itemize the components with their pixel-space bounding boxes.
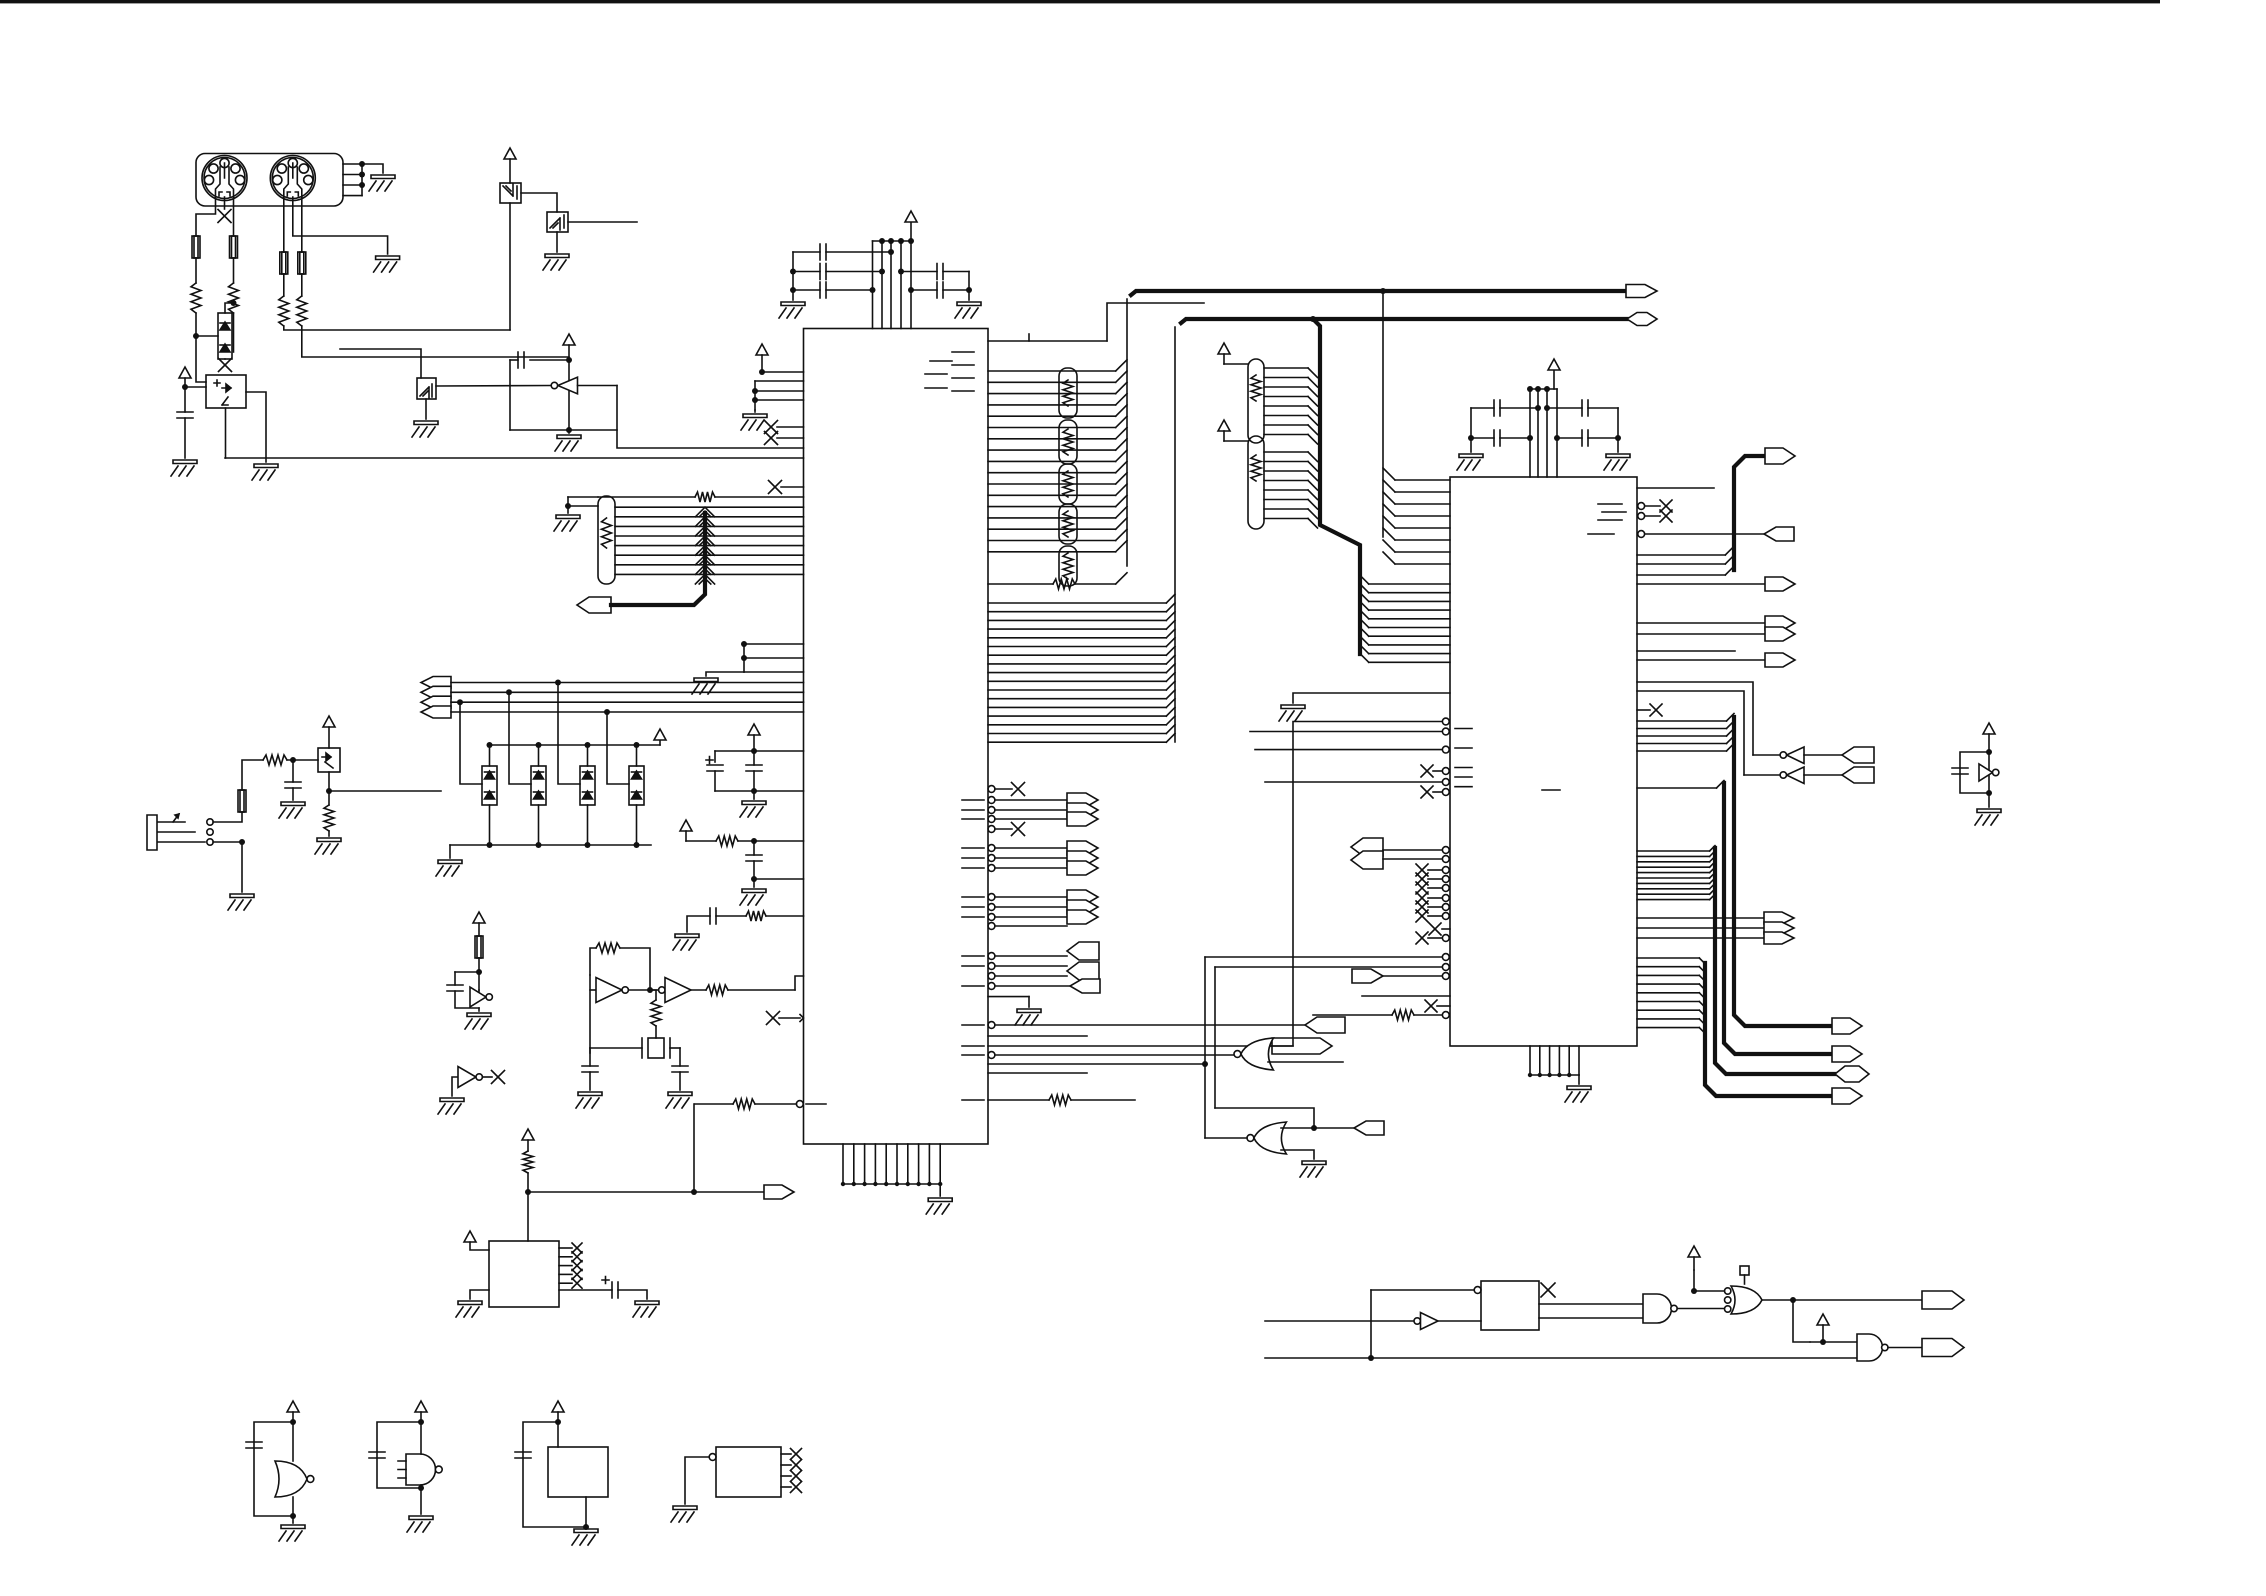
net flag (1067, 890, 1098, 904)
power flag VCC RN4 (1218, 420, 1230, 431)
wire (1617, 408, 1619, 452)
ground J1 shield (369, 175, 395, 191)
U2 right pin to thick vertical 2 (1637, 787, 1717, 789)
ground spare NAND (407, 1516, 433, 1532)
power flag VCC clock (473, 912, 485, 923)
ground U2 caps left (1457, 454, 1483, 470)
no-connect X (791, 1460, 802, 1471)
resistor R osc out (706, 985, 728, 995)
long MIDI line into U1 (225, 457, 804, 459)
resistor R cluster2 (716, 836, 738, 846)
small port symbol (1740, 1266, 1749, 1275)
wire (939, 1184, 941, 1196)
inverter U11 spare (1979, 764, 1993, 781)
capacitor C19 (292, 760, 294, 782)
caps C15 C16 osc (582, 1066, 598, 1072)
no-connect X (765, 421, 778, 434)
fuse F4 (298, 252, 306, 274)
fuse F3 (280, 252, 288, 274)
no-connect X (1012, 823, 1025, 836)
fuse FB2 (238, 790, 246, 812)
U4 right side X stubs (559, 1247, 572, 1249)
crystal X1 (648, 1038, 664, 1058)
capacitor C7 (1471, 437, 1494, 439)
U4 left pin to ground (470, 1290, 489, 1299)
U2 right X stub (1637, 709, 1650, 711)
resistor R osc series (651, 1000, 661, 1026)
RN4 pin lines merging into bus B branch (1264, 451, 1308, 453)
resistor R2 (229, 283, 239, 313)
no-connect X (769, 481, 782, 494)
power flag VCC reset (522, 1129, 534, 1140)
bus A thin branch to U2 (1380, 288, 1386, 294)
opto A output to MIDI line (225, 408, 227, 458)
RN1 common to ground (568, 505, 598, 507)
U1 input pin long flag (988, 1022, 995, 1029)
ground osc cap left (576, 1092, 602, 1108)
no-connect X (1416, 873, 1428, 885)
vertical taps down to NOR gates (1204, 957, 1206, 1138)
ground cluster3 (673, 934, 699, 950)
U1 pins commoned to ground (744, 643, 804, 645)
net flag (1765, 627, 1795, 641)
ground spare inverter (438, 1098, 464, 1114)
power flag VCC G5 (1817, 1314, 1829, 1325)
no-connect X (1660, 510, 1672, 522)
U2 right bundle to thick vertical 4 (9 lines) (1637, 957, 1699, 959)
IC U1 main controller body (804, 329, 989, 1145)
bottom logic input line 1 (1265, 1320, 1414, 1322)
ground diode arrays (436, 860, 462, 876)
ground opto A (252, 464, 278, 480)
ground spare inverter cluster (1975, 809, 2001, 825)
U2 right pin double flags (1637, 622, 1765, 624)
crystal oscillator cell (589, 975, 591, 1053)
capacitor C23 (515, 1452, 531, 1458)
net flag bus in (421, 677, 451, 689)
no-connect X (572, 1252, 582, 1262)
U4 bottom pin electrolytic (559, 1289, 612, 1291)
net flag bus in (421, 696, 451, 708)
diode pair D5 clamp (218, 313, 232, 359)
optocoupler U7 (photo-transistor) (521, 193, 557, 212)
ground U1 top-left pins (741, 414, 767, 430)
U2 interior stubs left mid (1455, 728, 1472, 730)
U1 pin line top right (988, 340, 1107, 342)
NAND gate G3 (1643, 1294, 1672, 1323)
capacitor C1 (793, 251, 820, 253)
ground spare NOR (279, 1525, 305, 1541)
U2 right pin line (1637, 650, 1735, 652)
wire U8 output (436, 385, 551, 388)
no-connect X (1012, 783, 1025, 796)
U1 pin to ground (988, 996, 1029, 998)
ground R6 (315, 838, 341, 854)
net flag (1765, 577, 1795, 591)
no-connect X (1421, 786, 1433, 798)
U1 output pin flag (988, 1045, 1272, 1047)
net flag (1067, 910, 1098, 924)
resistor R3 (279, 296, 289, 326)
U1 left X stub with pin mark (779, 1017, 800, 1019)
wire (1470, 408, 1472, 452)
net flag (1765, 653, 1795, 667)
ground U2 caps right (1604, 454, 1630, 470)
ground cluster1 (740, 801, 766, 817)
power flag VCC one-shot (563, 334, 575, 345)
U2 right pins to inverters (1637, 682, 1753, 755)
U2 left pin lines mid (1442, 728, 1449, 735)
latch U13 body (1481, 1281, 1539, 1330)
capacitor C11 (746, 765, 762, 771)
optocoupler U9 (jack) (318, 748, 340, 772)
no-connect X (1660, 500, 1672, 512)
inverter U3B osc (596, 978, 622, 1003)
wire VCC rail above U1 (873, 240, 912, 242)
capacitor C2 (793, 271, 820, 273)
U2 left X stub (1437, 1005, 1450, 1007)
U2 left pin flag out (1442, 973, 1449, 980)
U1 right pin X stub (988, 826, 995, 833)
no-connect X (791, 1482, 802, 1493)
no-connect X (1429, 923, 1441, 935)
inverter U12B mirrored (558, 377, 578, 394)
no-connect X (1650, 704, 1662, 716)
J1 shield stubs to ground (343, 163, 362, 165)
capacitor C22 (369, 1452, 385, 1458)
wire cap rail left (792, 252, 794, 300)
ground C19 (279, 802, 305, 818)
power flag VCC U2 (1548, 359, 1560, 370)
U1 left X stub (781, 486, 804, 488)
net flag (1067, 841, 1098, 855)
spare box with bubble cell (716, 1447, 781, 1497)
net flag U2 right in (1764, 527, 1794, 541)
U2 left pin bundle from bus B (10 lines) (1360, 575, 1369, 584)
U13 top-left pin (1474, 1287, 1481, 1294)
wire VCC rail above U2 (1530, 388, 1557, 390)
bus A thick trunk (1131, 291, 1626, 295)
G2 input wires (1205, 1137, 1247, 1139)
ground U8 (412, 421, 438, 437)
IC U2 sub controller body (1450, 477, 1637, 1046)
no-connect X (492, 1071, 505, 1084)
inverter U10A (1753, 754, 1786, 756)
no-connect X (1541, 1283, 1555, 1297)
no-connect X (1416, 892, 1428, 904)
power flag VCC diode arrays (654, 729, 666, 740)
ground opto A cap (171, 460, 197, 476)
U9 output long line (329, 790, 441, 792)
net flag (1764, 912, 1794, 924)
diode array vertical drops (460, 702, 482, 784)
net flag (1067, 851, 1098, 865)
U1 pin short line (988, 1072, 1087, 1074)
ground G2 input (1300, 1161, 1326, 1177)
capacitor C5 (911, 289, 937, 291)
KB bus lines with rips (8 lines) (615, 506, 804, 508)
capacitor C13 (710, 908, 716, 924)
NOR gate G1 (mirrored) (1241, 1038, 1274, 1070)
net flag out A (1922, 1291, 1964, 1309)
resistor R reset pullup (523, 1151, 533, 1173)
no-connect X (1416, 864, 1428, 876)
U1 input pins with left flags (988, 953, 995, 960)
U1 left X stubs (777, 426, 804, 428)
power flag VCC spare NOR (287, 1401, 299, 1412)
U1 left pin with resistor to reset net (796, 1101, 803, 1108)
no-connect X (791, 1471, 802, 1482)
no-connect X (1416, 882, 1428, 894)
wire U7 output stub (568, 221, 637, 223)
ground RN1 (554, 515, 580, 531)
U13 outputs to NAND (1539, 1303, 1643, 1305)
capacitor C14 (455, 971, 479, 973)
power flag VCC U1 (905, 211, 917, 222)
optocoupler U8 (MIDI in B) (340, 349, 421, 378)
resistor R osc feedback (596, 943, 620, 953)
U2 left no-connect pins (X column) (1442, 867, 1449, 874)
inverter U12 (1414, 1318, 1420, 1324)
net flag (1765, 616, 1795, 630)
net flag G2 input (1354, 1121, 1384, 1135)
power flag VCC cluster2 (680, 820, 692, 831)
spare NOR rails (292, 1422, 294, 1461)
VCC rail over diode arrays (490, 744, 661, 746)
U2 left pin with tap down to NOR (1442, 718, 1449, 725)
no-connect X (572, 1261, 582, 1271)
net flag input pair (1067, 962, 1099, 980)
spare box X stubs (781, 1453, 791, 1455)
IC U2 internal pin-group marks (1598, 503, 1622, 505)
capacitor C24 (518, 352, 524, 368)
power flag VCC RN3 (1218, 343, 1230, 354)
power flag VCC G4 (1688, 1246, 1700, 1257)
U1 pin long line (988, 1063, 1205, 1065)
resistor R5 (263, 755, 287, 765)
wire supply lines into U1 top (872, 241, 874, 329)
G4 top input from above (1694, 1270, 1725, 1291)
U2 right pins with X (1638, 503, 1645, 510)
power flag VCC spare NAND (415, 1401, 427, 1412)
ground cluster2 (740, 889, 766, 905)
bus C thick to flag (1637, 554, 1725, 556)
optocoupler U5 (MIDI in A) (206, 375, 246, 408)
net flag bus B out (1627, 313, 1657, 326)
no-connect X (572, 1243, 582, 1253)
bus B thick trunk (1181, 319, 1627, 323)
bottom logic input line 2 (1265, 1357, 1857, 1359)
wire power stem (910, 222, 912, 241)
net flag bus A out (1626, 285, 1657, 298)
ground U1 pin (1015, 1009, 1041, 1025)
power flag VCC cluster1 (748, 724, 760, 735)
connector J1 DIN socket A (202, 156, 247, 201)
net flag out (1272, 1038, 1332, 1054)
power flag VCC U4 (464, 1231, 476, 1242)
no-connect X (1416, 910, 1428, 922)
net flag bus in (421, 706, 451, 718)
net flag input pair (1067, 942, 1099, 960)
net flag in (1305, 1017, 1345, 1033)
bus A tap with resistor R (988, 583, 1053, 585)
no-connect X (791, 1449, 802, 1460)
resistor R6 (324, 805, 334, 831)
U1 output group 1 (3 lines with flags) (988, 797, 995, 804)
resistor R KB common (695, 492, 715, 502)
resistor packs RA1-RA5 on bus A taps (1059, 368, 1077, 418)
ground J2 (228, 894, 254, 910)
U1 output stub (988, 923, 995, 930)
inverter U3A (470, 987, 486, 1007)
U2 left pin stub (1362, 995, 1450, 997)
ground U1 bottom (926, 1198, 952, 1214)
U2 right pin line (1637, 487, 1714, 489)
net flag data A (1832, 1018, 1862, 1034)
connector J1 DIN socket B (270, 156, 315, 201)
net flag bus C (1765, 448, 1795, 464)
OR gate G4 (3-input with bubbles) (1731, 1286, 1762, 1314)
U1 input pin flag (988, 983, 995, 990)
NOR gate G2 (mirrored) (1254, 1122, 1287, 1154)
ground U2 pin (1279, 705, 1305, 721)
bus B taps from U1 right side (17 lines) (988, 602, 1166, 604)
J1-B pin wires down (283, 197, 285, 252)
power flag VCC U6 (504, 148, 516, 159)
ground U2 bottom (1565, 1086, 1591, 1102)
resistor R1 (191, 283, 201, 313)
ground clock (465, 1013, 491, 1029)
no-connect X (572, 1269, 582, 1279)
U2 right pin to left flag (1638, 531, 1645, 538)
J1-A pin wires down (196, 197, 216, 236)
bus A taps from U1 right side (17 lines) (988, 370, 1116, 372)
U2 right bundle to thick vertical 1 (5 lines) (1637, 720, 1727, 722)
net flag (1067, 793, 1098, 807)
ground U1 caps right (955, 302, 981, 318)
KB pull resistor pack RN1 (598, 496, 615, 584)
RN3 pin lines merging into bus B branch (1264, 367, 1308, 369)
U2 right pin flag (1637, 659, 1765, 661)
ground U4 (456, 1301, 482, 1317)
ground C17 (633, 1301, 659, 1317)
bus B vertical collector (1174, 327, 1176, 742)
net flag data D (1832, 1088, 1862, 1104)
resistor R cluster3 (746, 911, 766, 921)
wire supply lines into U2 top (1529, 389, 1531, 477)
no-connect X (767, 1012, 780, 1025)
capacitor C12 (753, 841, 755, 855)
net flag (1764, 922, 1794, 934)
U2 bottom pins to ground (6 lines) (1529, 1046, 1531, 1075)
U1 pin with series resistor right (988, 1099, 1049, 1101)
U1 right pin X stub (988, 786, 995, 793)
capacitor C10 electrolytic (714, 751, 716, 762)
no-connect X (1421, 765, 1433, 777)
U2 left pin with resistor (1442, 1012, 1449, 1019)
power flag VCC U9 (323, 716, 335, 727)
power flag VCC spare (1983, 723, 1995, 734)
fuse F2 (230, 236, 238, 258)
IC U1 internal pin-group marks (930, 360, 952, 362)
capacitor C9 (1557, 437, 1582, 439)
inverter U10B (1744, 774, 1786, 776)
power flag VCC U1 pins (756, 344, 768, 355)
U2 right crossing lines to triple flags (1637, 917, 1764, 919)
U1 output group 2 (988, 845, 995, 852)
no-connect X (1425, 1000, 1437, 1012)
bus lines to U1 (451, 682, 804, 684)
capacitor C21 (246, 1442, 262, 1448)
net flag (1764, 932, 1794, 944)
diode array D1-D4 (clamp pairs) (489, 745, 491, 766)
G1 input wires (1273, 1045, 1293, 1047)
fuse FB clock (475, 936, 483, 958)
U1 output group 3 (988, 894, 995, 901)
capacitor C17 electrolytic (612, 1282, 618, 1298)
opto A emitter to ground (246, 392, 266, 462)
capacitor C4 (901, 271, 937, 273)
U1 input pin stub (988, 973, 995, 980)
clock line into U1 (617, 386, 804, 449)
no-connect X (1416, 901, 1428, 913)
U2 left pin long lines (1442, 954, 1449, 961)
U2 upper-left pin bundle from bus A (8 lines) (1383, 468, 1395, 480)
net flag in (1842, 767, 1874, 783)
capacitor C8 (1547, 407, 1582, 409)
no-connect X (1416, 932, 1428, 944)
jack wires (213, 812, 242, 822)
net flag data C (1835, 1066, 1869, 1082)
power flag VCC opto A (179, 367, 191, 378)
page border bar top (0, 0, 2160, 3)
capacitor C3 (793, 289, 820, 291)
bus A vertical collector (1126, 299, 1128, 566)
wire power stem (1553, 370, 1555, 389)
net flag RESET (764, 1185, 794, 1199)
connector J1 DIN block outline (196, 154, 343, 207)
net flag (1067, 861, 1098, 875)
net flag (1067, 803, 1098, 817)
ground U1 caps left (779, 302, 805, 318)
wire reset vertical (693, 1104, 695, 1192)
ground spare box (671, 1506, 697, 1522)
power flag VCC spare FF (552, 1401, 564, 1412)
wire cap rail right (968, 272, 970, 301)
inverter U3C buffer (659, 987, 665, 993)
net flag out B (1922, 1339, 1964, 1357)
ground spare FF (572, 1529, 598, 1545)
net flag U2 in B (1351, 851, 1383, 869)
bus B thick branch to U2 (1310, 316, 1316, 322)
resistor network RN4 (1248, 436, 1264, 529)
U1 pin line (988, 1035, 1087, 1037)
ground one-shot (555, 435, 581, 451)
ground U1 pins mid (692, 678, 718, 694)
U1 internal stubs right side (962, 799, 984, 801)
net flag in (1842, 747, 1874, 763)
U2 right bundle to thick vertical 3 (10 lines) (1637, 850, 1710, 852)
net flag (1067, 812, 1098, 826)
net flag in (1070, 979, 1100, 993)
connector J2 phone jack (147, 815, 205, 850)
net flag U2 in A (1351, 838, 1383, 856)
net flag (1067, 900, 1098, 914)
ground U7 (543, 254, 569, 270)
ground J1-B mid pin (374, 256, 400, 272)
fuse F1 (192, 236, 200, 258)
net flag U2 (1352, 969, 1383, 983)
